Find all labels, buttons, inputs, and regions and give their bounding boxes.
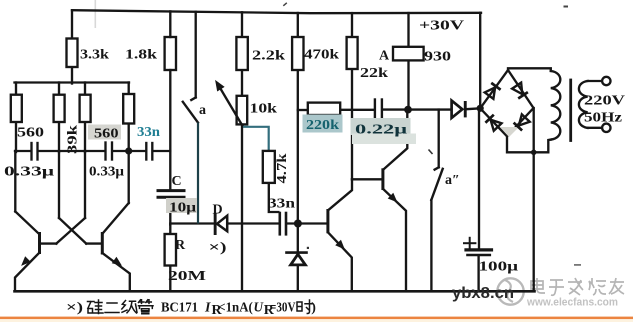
svg-text:100μ: 100μ (479, 260, 519, 275)
top +30V rail (72, 10, 481, 13)
watermark logo circle (497, 278, 523, 304)
svg-text:20M: 20M (168, 269, 206, 284)
node wire segments y=151 with caps (15, 150, 31, 152)
diode D triangle (points left) (217, 216, 227, 232)
transistor Q2 emitter (102, 253, 130, 291)
Q2 emitter arrow (112, 257, 125, 269)
transformer core (569, 80, 572, 141)
100u plus sign (464, 242, 475, 244)
transistor Q4 (328, 179, 352, 291)
svg-text:a: a (199, 103, 206, 118)
svg-text:560: 560 (94, 127, 119, 142)
svg-text:=30V: =30V (270, 301, 296, 316)
switch a2 column from node wire (431, 110, 442, 291)
wire: 100u to rail (477, 256, 479, 291)
bridge top corner to transformer (508, 68, 551, 71)
子 (549, 280, 564, 295)
gray highlight behind 10u (166, 198, 197, 213)
junction dot bridge bottom crossing (531, 150, 537, 156)
bottom orange border strip (0, 317, 633, 320)
resistor R 20M box (165, 234, 176, 266)
capacitor 0.33u #2 plates (104, 143, 106, 160)
potentiometer 10k wiper arrow (220, 87, 244, 128)
svg-text:0.33μ: 0.33μ (4, 165, 54, 180)
svg-text:): ) (311, 301, 316, 316)
capacitor 0.22u plates (374, 100, 376, 118)
bridge diode 4 (lower right) (514, 114, 530, 130)
svg-text:220V: 220V (584, 94, 625, 109)
wire: 220k lead from 470k column (298, 109, 308, 111)
bridge diode 2 (upper right) (512, 82, 528, 98)
diode D2 triangle (points right) (452, 101, 463, 118)
svg-text:U: U (254, 301, 264, 316)
svg-text:560: 560 (17, 126, 44, 141)
wire: bridge right corner down to rail (533, 108, 535, 291)
svg-text:3.3k: 3.3k (80, 48, 109, 63)
svg-text:A: A (379, 49, 390, 64)
svg-text:ybx8.cn: ybx8.cn (452, 285, 514, 302)
svg-text:×): ×) (209, 241, 227, 256)
terminal circle top (602, 77, 610, 85)
relay/resistor A 930 box (horizontal) (393, 47, 424, 61)
junction dot at base node (294, 220, 302, 228)
wire: 470k bottom down to base node dot (297, 70, 299, 224)
teal highlight behind 0.22u (351, 118, 411, 135)
bridge diode 1 (upper left) (484, 83, 500, 99)
svg-text:+30V: +30V (419, 19, 464, 34)
wire: right column down to Q2 collector (128, 151, 130, 203)
svg-text:22k: 22k (360, 66, 388, 81)
bridge diode 3 (lower left) (485, 115, 501, 131)
svg-text:R: R (175, 238, 186, 253)
svg-text:<1nA(: <1nA( (218, 301, 253, 316)
switch a hook contact (191, 98, 195, 101)
svg-text:www.elecfans.com: www.elecfans.com (526, 297, 618, 309)
wire: 10k pot column down across D-wire to rail (241, 124, 243, 291)
wire leads resistor bottoms to node wire (15, 122, 17, 153)
teal wire: switch a lower column (197, 123, 199, 224)
capacitor 33n (left) plates (145, 143, 147, 160)
wire: 3.3k column top (71, 10, 73, 39)
svg-text:220k: 220k (306, 118, 339, 133)
svg-text:33n: 33n (137, 125, 160, 140)
svg-text:10μ: 10μ (169, 201, 196, 216)
bus wire (collector bus of oscillator) (15, 81, 130, 83)
电 (531, 278, 545, 293)
transistor Q2 bar (101, 232, 104, 255)
resistor 220k box (horizontal) (308, 103, 340, 115)
resistor 2.2k box (236, 37, 247, 70)
wire: 220k to 0.22u cap (340, 109, 374, 111)
wire: Q3 base horizontal (352, 178, 382, 180)
capacitor 33n (right) plates (278, 213, 281, 234)
junction dot at 0.22u / collector node (404, 106, 412, 114)
caption CJK er (drawn) (105, 303, 119, 313)
capacitor 100u plates (466, 248, 492, 251)
wire: right +30V column from rail to bridge corner (479, 13, 481, 109)
resistor 560 #2 box (80, 95, 91, 122)
wire: 4.7k bottom bend to 33n cap (269, 183, 280, 212)
resistor 470k box (292, 37, 303, 70)
svg-text:930: 930 (424, 50, 451, 65)
友 (609, 278, 624, 294)
resistor (4th) box (123, 94, 134, 124)
teal highlight behind 220k (303, 115, 343, 133)
caption CJK gui (drawn) (88, 300, 104, 314)
bridge rectifier diamond (480, 70, 533, 136)
wire: 560 column down, diagonal to Q1 base (84, 151, 86, 218)
Q1 emitter arrow (18, 256, 31, 269)
svg-text:0.22μ: 0.22μ (355, 123, 407, 138)
gray highlight behind 560 #2 (88, 125, 121, 140)
diode (to ground) triangle (291, 254, 306, 265)
wire: switch a2 to rail (430, 200, 432, 291)
junction dot bridge left corner (477, 105, 484, 112)
resistor 4.7k box (263, 151, 275, 183)
wire: secondary bottom terminal lead (588, 127, 602, 129)
wire: 1.8k column from rail (169, 11, 171, 37)
transformer secondary winding (579, 81, 588, 128)
caption CJK guan (drawn) (139, 300, 154, 314)
junction dot node at 0.33/33n wire (125, 147, 132, 154)
teal wire: pot wiper to 4.7k (243, 127, 269, 152)
wire: 0.22u to diode D2 (383, 108, 451, 110)
wire leads bus to resistor tops (15, 83, 17, 96)
wire: 2.2k column from rail (241, 12, 243, 37)
switch a arm (183, 102, 198, 123)
capacitor 0.33u #1 plates (30, 143, 32, 160)
transistor Q3 (383, 110, 407, 291)
svg-text:C: C (172, 174, 182, 189)
potentiometer 10k box (237, 96, 248, 125)
wire: 39k column down, diagonal to Q2 base (58, 151, 60, 218)
wire: node to R top, R bottom to rail (169, 225, 171, 234)
svg-text:1.8k: 1.8k (125, 48, 157, 63)
D-node horizontal wire (170, 222, 215, 224)
svg-text:39k: 39k (66, 125, 81, 154)
terminal circle bottom (602, 124, 610, 132)
svg-text:10k: 10k (250, 102, 278, 117)
svg-text:I: I (204, 301, 211, 316)
wire: C bottom to D-node wire (169, 199, 171, 225)
gray smudge in bridge (500, 127, 519, 137)
scan speck top left-center (283, 3, 287, 6)
bridge bottom corner to transformer (507, 136, 551, 152)
diode D bar (214, 214, 217, 236)
resistor 3.3k box (67, 39, 78, 68)
switch a2 arm (431, 169, 442, 200)
caption CJK ji (drawn) (122, 301, 137, 314)
capacitor C 10u plates (158, 189, 184, 192)
svg-text:a″: a″ (445, 173, 460, 188)
bottom ground rail (15, 290, 535, 293)
switch a: column from rail (195, 12, 197, 98)
transistor Q2 base lead (86, 242, 100, 244)
scan dash right lower (574, 264, 581, 266)
wire: diode D2 to bridge corner (466, 107, 480, 110)
wire: 3.3k bottom to bus (71, 66, 73, 84)
scan speck near switch a2 (429, 150, 433, 155)
caption CJK shi (drawn) (297, 300, 313, 314)
烧 (589, 278, 606, 295)
resistor 1.8k box (165, 37, 176, 70)
wire: left column down to Q1 collector (14, 151, 16, 212)
watermark CJK 电子发烧友 (drawn) (531, 278, 624, 295)
faint gray streak top (95, 0, 97, 28)
transistor Q1 emitter (15, 253, 40, 291)
svg-text:50Hz: 50Hz (584, 111, 622, 126)
diode lead to rail (297, 265, 299, 291)
wire: base node down to diode (297, 224, 299, 253)
resistor 39k box (54, 95, 65, 122)
svg-text:0.33μ: 0.33μ (89, 165, 124, 180)
scan speck top right (564, 6, 569, 8)
diode D2 bar (464, 101, 467, 117)
svg-text:4.7k: 4.7k (275, 153, 290, 183)
发 (568, 278, 583, 295)
svg-text:×): ×) (66, 301, 83, 316)
diode (to ground) bar (287, 251, 307, 254)
wire: 470k column from rail (297, 13, 299, 37)
wire: 1.8k bottom down to C cap (169, 70, 171, 189)
svg-text:D: D (213, 203, 223, 218)
resistor 560 #1 box (11, 95, 22, 122)
svg-text:33n: 33n (268, 197, 295, 212)
transistor Q1 bar (38, 232, 41, 254)
wire: bridge corner down to 100u cap (478, 108, 480, 248)
wire: 2.2k to 10k pot (241, 70, 243, 96)
transformer primary winding (551, 71, 561, 140)
wire: secondary top terminal lead (588, 80, 602, 82)
scan speck near ground diode (307, 247, 309, 249)
svg-text:470k: 470k (304, 48, 339, 63)
wire: 22k bottom down to Q3 base node (351, 69, 353, 179)
svg-text:2.2k: 2.2k (252, 49, 285, 64)
wire: 22k column from rail (351, 13, 353, 37)
wire: 930 column from rail to dot (407, 13, 409, 110)
svg-text:BC171: BC171 (161, 301, 198, 316)
transistor Q1 base lead (41, 242, 57, 244)
resistor 22k box (347, 37, 358, 69)
